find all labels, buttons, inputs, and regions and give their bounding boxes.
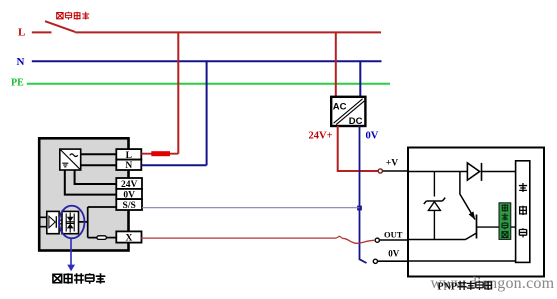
svg-text:PE: PE bbox=[11, 78, 24, 89]
svg-text:N: N bbox=[125, 161, 132, 171]
svg-text:DC: DC bbox=[349, 116, 363, 127]
svg-text:0V: 0V bbox=[366, 131, 379, 142]
svg-text:24V+: 24V+ bbox=[309, 131, 333, 142]
svg-text:X: X bbox=[125, 233, 132, 243]
svg-text:AC: AC bbox=[333, 102, 347, 113]
svg-text:0V: 0V bbox=[388, 249, 400, 259]
svg-text:L: L bbox=[18, 26, 25, 38]
svg-text:+V: +V bbox=[386, 159, 398, 169]
svg-text:S/S: S/S bbox=[123, 201, 136, 211]
svg-text:OUT: OUT bbox=[384, 230, 403, 240]
svg-text:PNP: PNP bbox=[438, 281, 457, 292]
svg-text:N: N bbox=[17, 56, 25, 68]
